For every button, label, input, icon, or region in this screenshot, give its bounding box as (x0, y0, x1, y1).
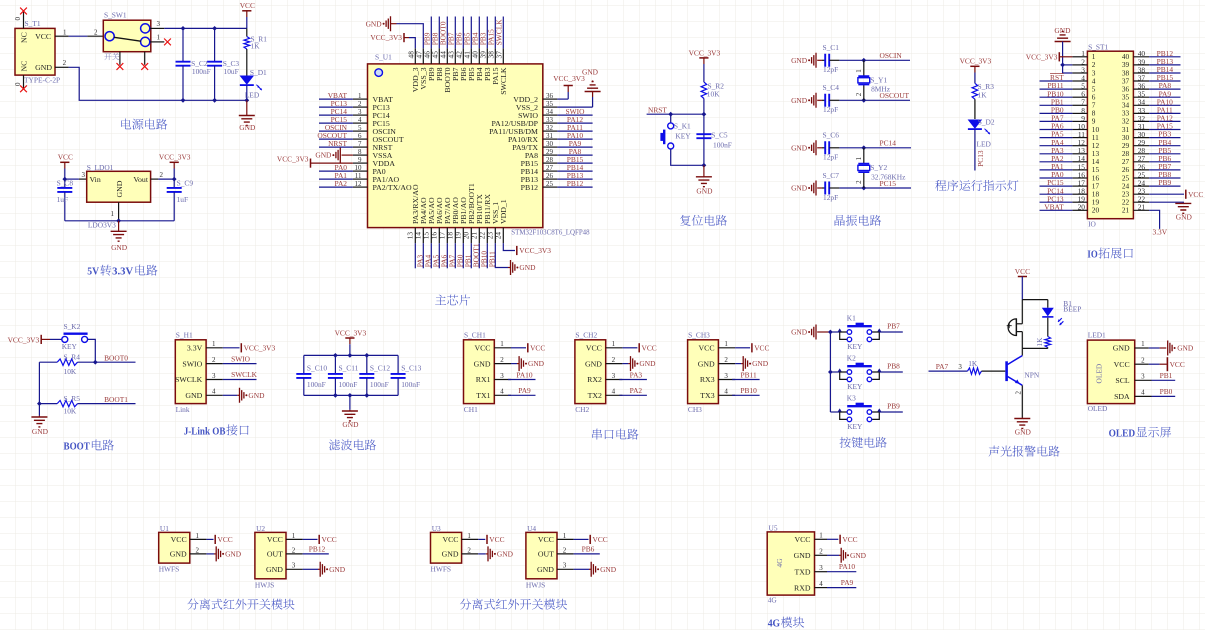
svg-text:2: 2 (63, 59, 67, 67)
svg-text:2: 2 (855, 92, 863, 96)
svg-text:VCC_3V3: VCC_3V3 (277, 154, 309, 163)
svg-text:10K: 10K (64, 367, 77, 376)
svg-text:9: 9 (358, 156, 362, 164)
svg-text:PA2: PA2 (630, 386, 643, 395)
svg-text:U1: U1 (160, 524, 169, 533)
svg-text:3: 3 (358, 108, 362, 116)
svg-text:12pF: 12pF (823, 105, 838, 114)
svg-text:GND: GND (585, 359, 602, 368)
svg-text:VCC_3V3: VCC_3V3 (8, 335, 40, 344)
svg-text:PA7: PA7 (936, 362, 949, 371)
svg-text:S_LDO1: S_LDO1 (87, 163, 114, 172)
svg-text:S_ST1: S_ST1 (1088, 43, 1108, 52)
svg-text:VCC: VCC (58, 153, 73, 162)
svg-text:2: 2 (292, 546, 296, 554)
svg-text:1: 1 (819, 532, 823, 540)
svg-text:4G: 4G (768, 596, 778, 605)
svg-text:VCC: VCC (218, 535, 233, 544)
svg-text:S_C5: S_C5 (711, 130, 728, 139)
svg-text:21: 21 (1138, 203, 1146, 212)
svg-text:VCC: VCC (1188, 190, 1203, 199)
svg-text:1: 1 (63, 28, 67, 36)
svg-text:PB7: PB7 (887, 321, 900, 330)
svg-text:1K: 1K (968, 359, 978, 368)
svg-text:LED: LED (977, 139, 992, 148)
svg-text:PB12: PB12 (309, 545, 326, 554)
svg-text:S_CH2: S_CH2 (575, 331, 597, 340)
svg-text:3: 3 (724, 372, 728, 380)
svg-text:2: 2 (196, 546, 200, 554)
svg-text:12pF: 12pF (823, 153, 838, 162)
svg-text:HWJS: HWJS (255, 580, 274, 589)
svg-text:CH3: CH3 (688, 405, 702, 414)
svg-text:1K: 1K (978, 90, 988, 99)
svg-text:GND: GND (185, 391, 202, 400)
svg-text:VCC: VCC (1015, 267, 1030, 276)
svg-text:1uF: 1uF (177, 195, 189, 204)
svg-text:SWCLK: SWCLK (495, 19, 504, 46)
svg-text:VCC: VCC (530, 344, 545, 353)
svg-text:S_D1: S_D1 (250, 68, 267, 77)
svg-text:2: 2 (94, 28, 98, 36)
svg-text:2: 2 (358, 100, 362, 108)
svg-text:GND: GND (537, 565, 554, 574)
svg-text:PA3: PA3 (630, 370, 643, 379)
svg-text:J-Link OB: J-Link OB (184, 426, 226, 437)
svg-text:7: 7 (358, 140, 362, 148)
svg-text:SWCLK: SWCLK (175, 375, 203, 384)
svg-text:20: 20 (1078, 203, 1086, 212)
svg-text:RX3: RX3 (700, 375, 715, 384)
svg-text:GND: GND (850, 551, 867, 560)
svg-text:GND: GND (791, 56, 808, 65)
svg-text:35: 35 (546, 100, 554, 108)
svg-text:S_K1: S_K1 (674, 122, 691, 131)
svg-text:VCC: VCC (474, 344, 490, 353)
svg-text:4: 4 (500, 388, 504, 396)
svg-text:GND: GND (35, 63, 52, 72)
svg-text:OUT: OUT (538, 550, 554, 559)
svg-text:PB0: PB0 (1160, 387, 1173, 396)
svg-text:S_C1: S_C1 (823, 43, 840, 52)
svg-text:1: 1 (292, 532, 296, 540)
svg-text:1: 1 (358, 92, 362, 100)
svg-text:GND: GND (791, 143, 808, 152)
svg-text:4: 4 (212, 388, 216, 396)
svg-text:1: 1 (157, 34, 161, 42)
svg-text:32: 32 (546, 124, 554, 132)
svg-text:NRST: NRST (328, 139, 347, 148)
svg-text:100nF: 100nF (307, 380, 326, 389)
svg-text:1: 1 (500, 340, 504, 348)
svg-text:4G: 4G (768, 619, 780, 630)
svg-text:VCC_3V3: VCC_3V3 (519, 246, 551, 255)
svg-text:5: 5 (358, 124, 362, 132)
svg-text:3: 3 (1141, 373, 1145, 381)
svg-text:VCC: VCC (442, 535, 458, 544)
svg-text:RX2: RX2 (587, 375, 602, 384)
svg-text:27: 27 (546, 164, 554, 172)
svg-text:S_U1: S_U1 (375, 52, 392, 61)
svg-text:20: 20 (1092, 206, 1100, 215)
svg-text:S_SW1: S_SW1 (104, 11, 127, 20)
svg-text:4: 4 (612, 388, 616, 396)
svg-text:2: 2 (1141, 356, 1145, 364)
svg-text:2: 2 (1015, 391, 1023, 395)
svg-text:KEY: KEY (847, 382, 863, 391)
svg-text:NC: NC (20, 32, 29, 43)
svg-text:VCC: VCC (754, 344, 769, 353)
svg-text:GND: GND (698, 359, 715, 368)
svg-text:PB12: PB12 (567, 179, 584, 188)
svg-text:PA10: PA10 (516, 370, 532, 379)
svg-text:S_Y2: S_Y2 (870, 163, 887, 172)
svg-text:8MHz: 8MHz (871, 85, 891, 94)
svg-text:3: 3 (612, 372, 616, 380)
svg-text:PB10: PB10 (740, 386, 757, 395)
svg-text:VCC: VCC (1114, 360, 1130, 369)
svg-text:12: 12 (355, 180, 363, 188)
svg-text:S_C11: S_C11 (339, 363, 359, 372)
svg-text:8: 8 (358, 148, 362, 156)
svg-text:1uF: 1uF (57, 195, 69, 204)
svg-text:PB8: PB8 (887, 361, 900, 370)
svg-text:VCC: VCC (1170, 360, 1185, 369)
svg-text:0: 0 (14, 17, 22, 21)
svg-text:HWJS: HWJS (526, 580, 545, 589)
svg-text:11: 11 (355, 172, 362, 180)
svg-text:GND: GND (791, 184, 808, 193)
svg-text:VCC_3V3: VCC_3V3 (960, 57, 992, 66)
svg-text:5V: 5V (87, 267, 99, 278)
svg-text:VCC_3V3: VCC_3V3 (335, 328, 367, 337)
svg-text:VCC: VCC (538, 535, 554, 544)
svg-text:KEY: KEY (62, 342, 78, 351)
svg-text:U5: U5 (769, 523, 778, 532)
svg-text:PB12: PB12 (521, 183, 538, 192)
svg-text:PC13: PC13 (976, 150, 985, 167)
svg-text:VCC: VCC (489, 535, 504, 544)
svg-text:BOOT0: BOOT0 (104, 353, 128, 362)
svg-text:TXD: TXD (794, 567, 810, 576)
svg-text:GND: GND (528, 359, 545, 368)
svg-text:0: 0 (14, 82, 22, 86)
svg-text:GND: GND (315, 151, 332, 160)
svg-text:VCC: VCC (322, 535, 337, 544)
svg-text:1: 1 (1141, 340, 1145, 348)
svg-text:PA9: PA9 (841, 578, 854, 587)
svg-text:S_D2: S_D2 (978, 117, 995, 126)
svg-text:CH2: CH2 (575, 405, 589, 414)
svg-text:S_R4: S_R4 (64, 353, 81, 362)
svg-text:100nF: 100nF (192, 67, 211, 76)
svg-text:2: 2 (467, 546, 471, 554)
svg-text:SWIO: SWIO (231, 354, 251, 363)
svg-text:U2: U2 (256, 524, 265, 533)
svg-text:SCL: SCL (1115, 376, 1130, 385)
svg-text:NC: NC (20, 61, 29, 72)
svg-text:37: 37 (495, 51, 504, 59)
svg-text:3: 3 (563, 562, 567, 570)
svg-text:10uF: 10uF (224, 67, 239, 76)
svg-text:3: 3 (500, 372, 504, 380)
svg-text:GND: GND (791, 96, 808, 105)
svg-text:PB11: PB11 (741, 370, 757, 379)
svg-text:2: 2 (563, 546, 567, 554)
svg-text:GND: GND (329, 565, 346, 574)
svg-text:OUT: OUT (267, 550, 283, 559)
svg-text:28: 28 (546, 156, 554, 164)
svg-text:VCC: VCC (171, 535, 187, 544)
svg-text:VCC_3V3: VCC_3V3 (370, 33, 402, 42)
svg-text:GND: GND (115, 180, 124, 197)
svg-text:4: 4 (724, 388, 728, 396)
svg-text:GND: GND (474, 359, 491, 368)
svg-text:100nF: 100nF (339, 380, 358, 389)
svg-text:1: 1 (212, 340, 216, 348)
svg-text:1: 1 (855, 156, 863, 160)
svg-text:VCC: VCC (699, 344, 715, 353)
svg-text:3: 3 (157, 20, 161, 28)
svg-text:25: 25 (546, 180, 554, 188)
svg-text:S_C6: S_C6 (823, 131, 840, 140)
svg-text:TX2: TX2 (588, 391, 602, 400)
svg-text:2: 2 (724, 356, 728, 364)
svg-text:PA2/TX/AO: PA2/TX/AO (373, 183, 413, 192)
svg-text:S_C12: S_C12 (370, 363, 390, 372)
svg-text:VCC: VCC (267, 535, 283, 544)
svg-text:4G: 4G (775, 558, 784, 568)
svg-text:GND: GND (366, 19, 383, 28)
svg-text:3.3V: 3.3V (1153, 227, 1168, 236)
svg-text:26: 26 (546, 172, 554, 180)
svg-text:RX1: RX1 (476, 375, 491, 384)
svg-text:S_T1: S_T1 (25, 19, 41, 28)
svg-text:3: 3 (82, 171, 86, 179)
svg-text:S_C7: S_C7 (823, 171, 840, 180)
svg-text:GND: GND (1113, 344, 1130, 353)
svg-text:LDO3V3: LDO3V3 (88, 221, 116, 230)
svg-text:IO: IO (1088, 219, 1096, 228)
svg-text:GND: GND (225, 550, 242, 559)
svg-text:GND: GND (266, 565, 283, 574)
svg-text:VBAT: VBAT (1044, 202, 1064, 211)
svg-text:GND: GND (442, 550, 459, 559)
svg-text:1: 1 (111, 210, 115, 218)
svg-text:GND: GND (342, 420, 359, 429)
svg-text:RXD: RXD (794, 583, 811, 592)
svg-text:Vout: Vout (133, 175, 148, 184)
svg-text:GND: GND (752, 359, 769, 368)
svg-text:3: 3 (212, 372, 216, 380)
svg-text:10K: 10K (64, 407, 77, 416)
svg-text:Vin: Vin (90, 175, 101, 184)
svg-text:CH1: CH1 (464, 405, 478, 414)
svg-text:STM32F103C8T6_LQFP48: STM32F103C8T6_LQFP48 (511, 227, 590, 236)
svg-text:IO: IO (1087, 250, 1097, 261)
svg-text:VCC: VCC (794, 535, 810, 544)
svg-text:TX1: TX1 (476, 391, 490, 400)
svg-text:1: 1 (563, 532, 567, 540)
svg-text:1: 1 (467, 532, 471, 540)
svg-text:GND: GND (600, 565, 617, 574)
svg-text:K2: K2 (847, 354, 856, 363)
svg-text:PB6: PB6 (582, 545, 595, 554)
svg-text:3.3V: 3.3V (112, 267, 133, 278)
svg-text:6: 6 (358, 132, 362, 140)
svg-text:GND: GND (582, 68, 599, 77)
svg-text:1: 1 (724, 340, 728, 348)
svg-text:NRST: NRST (648, 105, 667, 114)
svg-text:2: 2 (855, 180, 863, 184)
svg-text:VCC: VCC (593, 535, 608, 544)
svg-text:21: 21 (1122, 206, 1130, 215)
svg-text:GND: GND (1176, 212, 1193, 221)
svg-text:U4: U4 (527, 524, 536, 533)
svg-text:S_Y1: S_Y1 (870, 76, 887, 85)
svg-text:S_K2: S_K2 (64, 322, 81, 331)
svg-text:GND: GND (170, 550, 187, 559)
svg-text:TX3: TX3 (700, 391, 714, 400)
svg-text:GND: GND (497, 550, 514, 559)
svg-text:PB9: PB9 (1158, 178, 1171, 187)
svg-text:1: 1 (855, 69, 863, 73)
svg-text:S_C10: S_C10 (307, 363, 327, 372)
svg-text:VCC: VCC (586, 344, 602, 353)
svg-text:GND: GND (639, 359, 656, 368)
svg-text:1K: 1K (251, 42, 261, 51)
svg-text:4: 4 (1141, 389, 1145, 397)
svg-text:OLED: OLED (1109, 429, 1136, 440)
svg-text:GND: GND (794, 551, 811, 560)
svg-text:4: 4 (819, 580, 823, 588)
svg-text:32.768KHz: 32.768KHz (871, 172, 906, 181)
svg-text:3.3V: 3.3V (187, 344, 203, 353)
svg-text:36: 36 (546, 92, 554, 100)
svg-text:NPN: NPN (1024, 370, 1039, 379)
svg-text:12pF: 12pF (823, 65, 838, 74)
svg-text:SWCLK: SWCLK (499, 67, 508, 95)
svg-text:OSCIN: OSCIN (880, 51, 903, 60)
svg-text:VDD_1: VDD_1 (499, 199, 508, 224)
svg-text:K1: K1 (847, 314, 856, 323)
svg-text:KEY: KEY (675, 132, 691, 141)
svg-text:SDA: SDA (1114, 392, 1130, 401)
svg-text:BEEP: BEEP (1063, 305, 1081, 314)
svg-text:GND: GND (32, 427, 49, 436)
svg-text:LED1: LED1 (1088, 331, 1106, 340)
svg-text:1: 1 (196, 532, 200, 540)
svg-text:100nF: 100nF (370, 380, 389, 389)
svg-text:2: 2 (160, 171, 164, 179)
svg-text:HWFS: HWFS (159, 565, 180, 574)
svg-text:33: 33 (546, 116, 554, 124)
svg-text:GND: GND (248, 391, 265, 400)
svg-text:S_C9: S_C9 (177, 178, 194, 187)
svg-text:4: 4 (358, 116, 362, 124)
svg-text:PB1: PB1 (1160, 371, 1173, 380)
svg-text:S_R5: S_R5 (64, 394, 81, 403)
svg-text:BOOT: BOOT (64, 442, 90, 453)
svg-text:GND: GND (1177, 344, 1194, 353)
svg-text:100nF: 100nF (401, 380, 420, 389)
svg-text:VCC: VCC (642, 344, 657, 353)
svg-text:34: 34 (546, 108, 554, 116)
svg-text:S_CH1: S_CH1 (464, 331, 486, 340)
svg-text:PA10: PA10 (839, 562, 855, 571)
svg-text:GND: GND (111, 243, 128, 252)
svg-text:29: 29 (546, 148, 554, 156)
svg-text:GND: GND (239, 123, 256, 132)
svg-text:GND: GND (519, 263, 536, 272)
svg-text:10: 10 (355, 164, 363, 172)
svg-text:2: 2 (500, 356, 504, 364)
svg-text:1: 1 (612, 340, 616, 348)
svg-text:2: 2 (212, 356, 216, 364)
svg-text:100nF: 100nF (713, 141, 732, 150)
svg-text:Link: Link (176, 405, 190, 414)
svg-text:1K: 1K (1035, 337, 1044, 347)
svg-text:VCC_3V3: VCC_3V3 (159, 153, 191, 162)
svg-text:KEY: KEY (847, 342, 863, 351)
svg-text:PA2: PA2 (335, 179, 348, 188)
svg-text:PC14: PC14 (880, 139, 897, 148)
svg-text:10K: 10K (707, 89, 720, 98)
svg-text:GND: GND (696, 186, 713, 195)
svg-text:U3: U3 (432, 524, 441, 533)
svg-text:GND: GND (791, 328, 808, 337)
svg-text:KEY: KEY (847, 422, 863, 431)
svg-text:3: 3 (958, 363, 962, 371)
svg-text:GND: GND (1054, 26, 1071, 35)
svg-text:31: 31 (546, 132, 554, 140)
svg-text:SWCLK: SWCLK (231, 370, 258, 379)
svg-text:3: 3 (819, 564, 823, 572)
svg-text:VCC_3V3: VCC_3V3 (244, 344, 276, 353)
svg-text:SWIO: SWIO (182, 359, 202, 368)
svg-text:TYPE-C-2P: TYPE-C-2P (24, 75, 60, 84)
svg-text:30: 30 (546, 140, 554, 148)
svg-text:BOOT1: BOOT1 (104, 395, 128, 404)
svg-text:OLED: OLED (1095, 363, 1104, 383)
svg-text:3: 3 (292, 562, 296, 570)
svg-text:GND: GND (1015, 427, 1032, 436)
svg-text:VCC: VCC (240, 1, 255, 10)
svg-text:HWFS: HWFS (431, 565, 452, 574)
svg-text:S_C4: S_C4 (823, 83, 840, 92)
svg-text:24: 24 (494, 232, 503, 240)
svg-text:OLED: OLED (1088, 404, 1108, 413)
svg-text:PA9: PA9 (518, 386, 531, 395)
svg-text:2: 2 (819, 548, 823, 556)
svg-text:K3: K3 (847, 394, 856, 403)
svg-text:S_H1: S_H1 (176, 331, 193, 340)
svg-text:12pF: 12pF (823, 193, 838, 202)
svg-text:2: 2 (612, 356, 616, 364)
svg-text:S_C13: S_C13 (401, 363, 421, 372)
svg-text:VCC: VCC (35, 32, 51, 41)
svg-text:VCC_3V3: VCC_3V3 (553, 74, 585, 83)
svg-text:S_C8: S_C8 (57, 178, 74, 187)
svg-text:S_CH3: S_CH3 (688, 331, 710, 340)
svg-text:VCC: VCC (842, 535, 857, 544)
svg-text:VCC_3V3: VCC_3V3 (1026, 53, 1058, 62)
svg-text:PB9: PB9 (887, 401, 900, 410)
svg-text:VCC_3V3: VCC_3V3 (689, 48, 721, 57)
